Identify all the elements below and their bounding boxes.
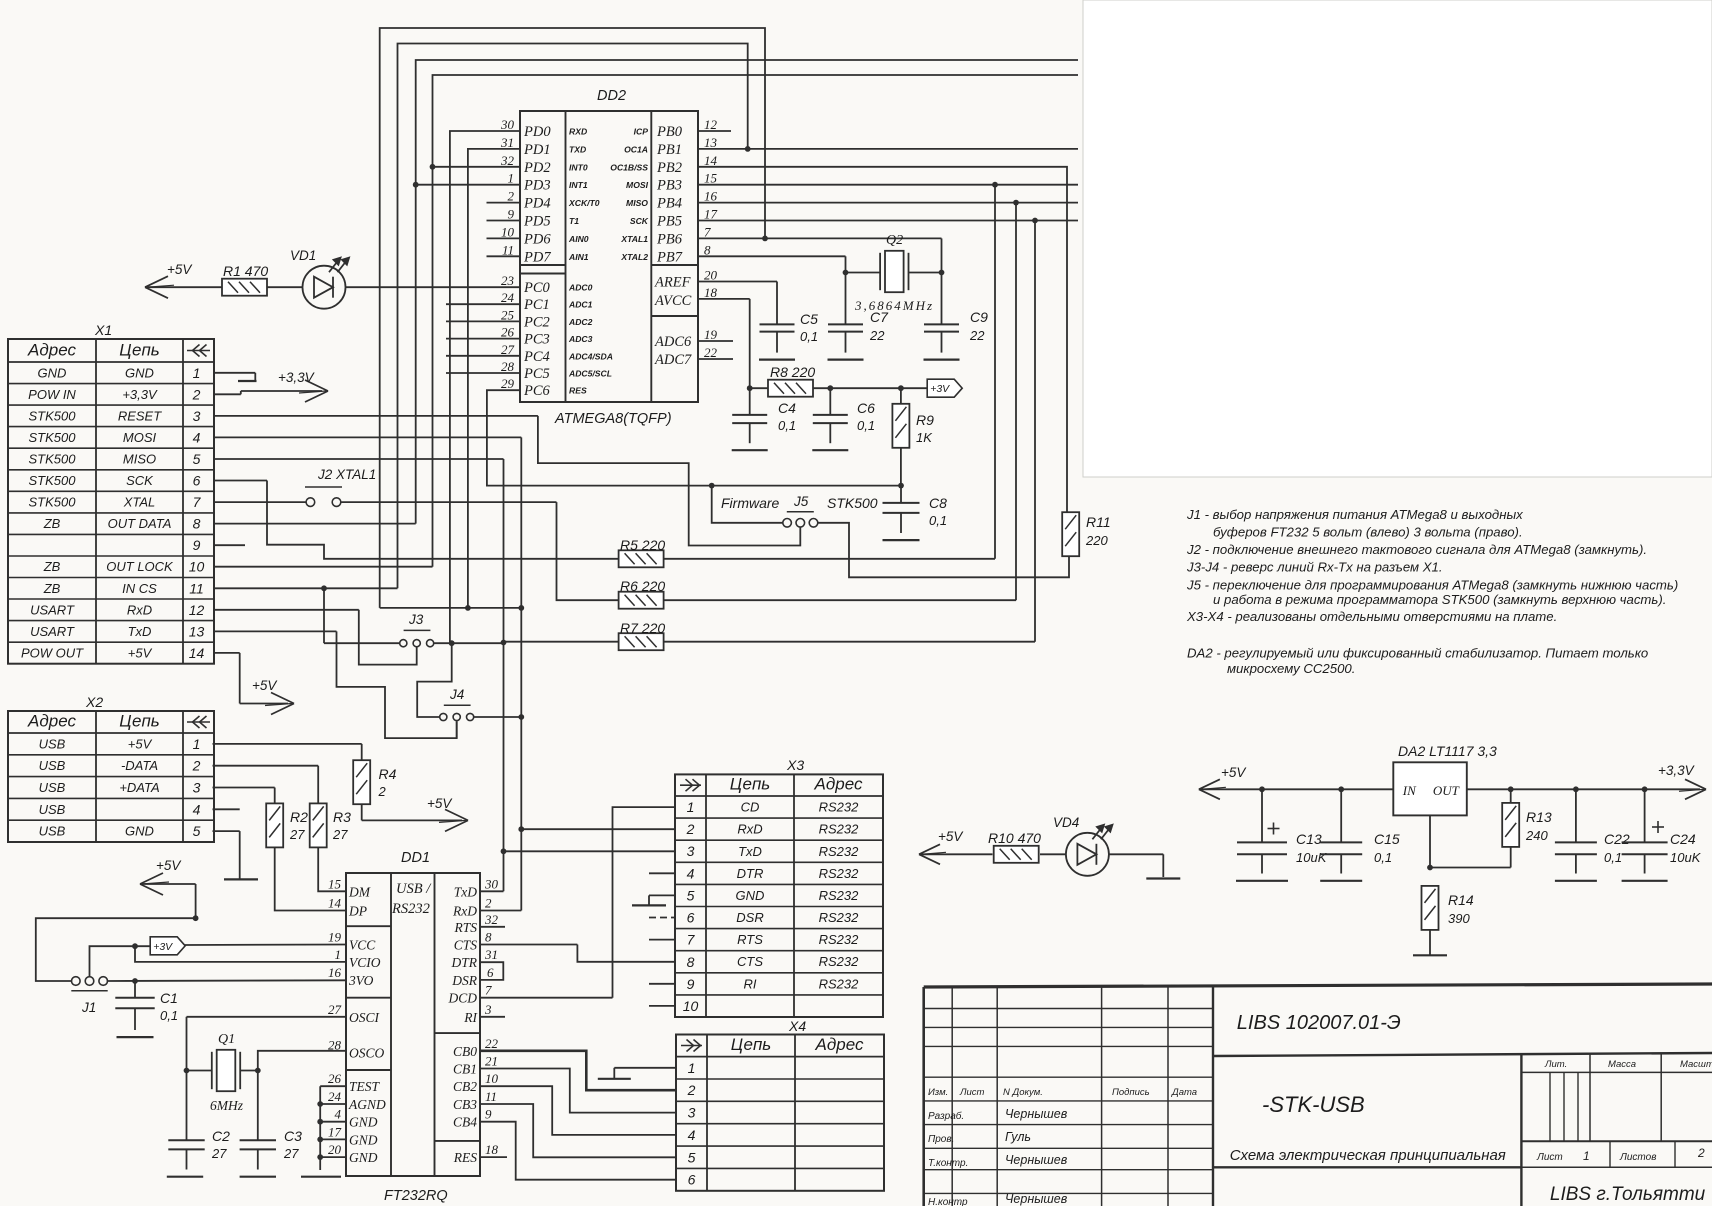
svg-text:R8 220: R8 220 — [770, 364, 815, 380]
svg-text:Q1: Q1 — [218, 1032, 235, 1047]
svg-text:PB2: PB2 — [656, 160, 682, 176]
svg-text:Подпись: Подпись — [1112, 1087, 1150, 1098]
wire +5V arrow into DA2 — [1199, 765, 1393, 799]
svg-text:RTS: RTS — [737, 932, 763, 947]
DD2 pin numbers — [500, 117, 718, 391]
svg-text:13: 13 — [189, 623, 205, 639]
svg-text:VD1: VD1 — [290, 248, 316, 263]
svg-text:2: 2 — [1697, 1146, 1705, 1160]
svg-text:+5V: +5V — [427, 796, 453, 811]
wire PB6 to crystal Q2 right — [939, 238, 945, 324]
svg-text:DP: DP — [348, 904, 367, 919]
svg-text:CB2: CB2 — [453, 1079, 477, 1094]
svg-text:5: 5 — [687, 887, 695, 903]
wire J5 left net from PC6 — [487, 390, 904, 523]
resistor R1 470 — [222, 263, 268, 296]
svg-text:PB0: PB0 — [656, 124, 683, 140]
svg-text:J1 - выбор напряжения питания: J1 - выбор напряжения питания ATMega8 и … — [1186, 507, 1523, 522]
svg-text:2: 2 — [687, 1082, 696, 1098]
svg-text:21: 21 — [485, 1054, 498, 1069]
svg-text:2: 2 — [508, 189, 515, 204]
svg-text:3,6864MHz: 3,6864MHz — [854, 298, 934, 313]
svg-text:ADC5/SCL: ADC5/SCL — [568, 369, 612, 379]
svg-text:Адрес: Адрес — [27, 341, 76, 360]
svg-text:CD: CD — [741, 800, 760, 815]
svg-text:10: 10 — [189, 559, 205, 575]
svg-text:9: 9 — [508, 207, 515, 222]
wire DD1 CB2 to X4 pin4 — [480, 1086, 676, 1135]
svg-text:+3V: +3V — [930, 383, 950, 395]
svg-text:+5V: +5V — [167, 262, 193, 277]
svg-text:2: 2 — [485, 896, 492, 911]
svg-text:RI: RI — [463, 1010, 478, 1025]
svg-text:SCK: SCK — [126, 473, 154, 488]
svg-text:Масшт: Масшт — [1680, 1059, 1712, 1070]
svg-text:OSCI: OSCI — [349, 1010, 381, 1025]
svg-text:12: 12 — [189, 602, 205, 618]
svg-text:AIN0: AIN0 — [568, 234, 589, 244]
svg-text:6MHz: 6MHz — [210, 1098, 244, 1113]
svg-text:USART: USART — [30, 602, 75, 617]
svg-text:RxD: RxD — [737, 822, 762, 837]
svg-text:PC3: PC3 — [523, 332, 550, 348]
svg-text:CB3: CB3 — [453, 1097, 477, 1112]
svg-text:11: 11 — [189, 580, 204, 596]
svg-text:MOSI: MOSI — [123, 430, 157, 445]
wire PD2 / X1 pin10 net (nest 4) — [214, 75, 1078, 567]
svg-text:буферов FT232 5 вольт (влево): буферов FT232 5 вольт (влево) 3 вольта (… — [1213, 525, 1523, 540]
svg-text:X4: X4 — [788, 1018, 806, 1034]
+3V flag near R9 — [927, 379, 962, 397]
wire +5V arrow to R1 — [145, 262, 223, 298]
wire X2 pin3 +DATA to R2 — [213, 788, 275, 804]
wire J3 right lead / J4 left link — [417, 640, 503, 717]
svg-text:PC2: PC2 — [523, 314, 550, 330]
svg-text:ADC4/SDA: ADC4/SDA — [568, 351, 613, 361]
svg-text:DTR: DTR — [737, 866, 764, 881]
svg-text:DSR: DSR — [451, 973, 477, 988]
capacitor C2 — [168, 1071, 230, 1170]
svg-text:R7 220: R7 220 — [620, 620, 665, 636]
wire R8 to +3V — [830, 385, 927, 391]
wire VD4 to ground step — [1109, 854, 1163, 877]
svg-text:RS232: RS232 — [819, 932, 860, 947]
svg-text:R14: R14 — [1448, 892, 1474, 908]
svg-text:GND: GND — [349, 1150, 378, 1165]
svg-text:+3V: +3V — [153, 941, 173, 953]
wire X2 pin4 stub — [213, 808, 240, 810]
capacitor C15 — [1320, 789, 1400, 873]
svg-text:SCK: SCK — [630, 216, 649, 226]
DD2 right stub PB0 — [698, 130, 731, 132]
svg-text:VD4: VD4 — [1053, 815, 1079, 830]
svg-text:CB4: CB4 — [453, 1115, 477, 1130]
wire X4 pin1 GND — [614, 1068, 676, 1079]
svg-text:XTAL1: XTAL1 — [620, 234, 648, 244]
svg-text:PB5: PB5 — [656, 214, 682, 230]
jumper J4 — [440, 687, 474, 721]
svg-text:PD4: PD4 — [523, 196, 551, 212]
svg-text:J3: J3 — [408, 612, 424, 627]
wire X3 pin4 stub — [649, 872, 675, 874]
svg-text:17: 17 — [704, 207, 718, 222]
regulator DA2 LT1117 — [1393, 743, 1497, 815]
svg-text:+3,3V: +3,3V — [122, 387, 158, 402]
svg-text:PD5: PD5 — [523, 214, 551, 230]
svg-text:25: 25 — [501, 307, 515, 322]
svg-text:LIBS г.Тольятти: LIBS г.Тольятти — [1550, 1184, 1706, 1205]
wire PD0 to J3 line — [450, 131, 520, 643]
wire PB6 net (nest outer, XTAL) — [380, 28, 942, 611]
svg-text:15: 15 — [704, 171, 718, 186]
wire R3 to DD1 DM — [318, 847, 346, 891]
svg-text:RS232: RS232 — [819, 954, 860, 969]
svg-text:8: 8 — [687, 954, 695, 970]
svg-text:Гуль: Гуль — [1005, 1130, 1031, 1144]
svg-text:10uK: 10uK — [1296, 850, 1328, 865]
svg-text:AIN1: AIN1 — [568, 252, 589, 262]
svg-text:PB7: PB7 — [656, 249, 683, 265]
svg-text:TEST: TEST — [349, 1079, 381, 1094]
capacitor C7 — [828, 309, 889, 353]
wire J3 left lead to X1 pin11 line — [321, 585, 399, 643]
wire J1 right to DD1 3VO — [107, 978, 346, 984]
svg-text:Дата: Дата — [1171, 1087, 1197, 1098]
svg-text:MISO: MISO — [626, 198, 648, 208]
wire X3 pin7 stub — [649, 939, 675, 941]
svg-text:Чернышев: Чернышев — [1005, 1107, 1068, 1121]
svg-text:GND: GND — [125, 824, 154, 839]
connector X2 — [8, 694, 214, 842]
svg-text:ADC2: ADC2 — [568, 317, 593, 327]
svg-text:19: 19 — [328, 930, 342, 945]
wire R2 to DD1 DP — [275, 847, 346, 910]
svg-text:PC6: PC6 — [523, 383, 551, 399]
svg-text:5: 5 — [193, 823, 201, 839]
svg-text:ZB: ZB — [43, 516, 61, 531]
svg-text:C9: C9 — [970, 309, 988, 325]
wire DD1 RI stub — [480, 1016, 505, 1018]
resistor R2 27 — [266, 803, 308, 847]
svg-text:27: 27 — [332, 827, 348, 842]
capacitor C5 — [760, 311, 819, 353]
wire DD1 CB3 to X4 pin5 — [480, 1104, 676, 1157]
resistor R7 220 — [504, 620, 1036, 650]
svg-text:USB: USB — [39, 802, 66, 817]
wire PB1 net (nest 2) — [214, 44, 1078, 589]
svg-text:C2: C2 — [212, 1128, 230, 1144]
svg-text:26: 26 — [328, 1071, 342, 1086]
svg-text:3: 3 — [193, 408, 201, 424]
svg-text:1: 1 — [193, 736, 201, 752]
svg-text:PC5: PC5 — [523, 366, 550, 382]
svg-text:9: 9 — [193, 537, 201, 553]
jumper J3 — [400, 612, 434, 647]
svg-text:27: 27 — [328, 1002, 342, 1017]
svg-text:10: 10 — [485, 1071, 499, 1086]
svg-text:RS232: RS232 — [819, 844, 860, 859]
svg-text:T1: T1 — [569, 216, 579, 226]
svg-text:AGND: AGND — [348, 1097, 386, 1112]
svg-text:DSR: DSR — [736, 910, 763, 925]
svg-text:PD3: PD3 — [523, 178, 551, 194]
svg-text:ICP: ICP — [634, 127, 649, 137]
svg-text:Цепь: Цепь — [731, 1035, 771, 1054]
wire J4 middle lead — [456, 721, 458, 738]
svg-text:Адрес: Адрес — [814, 775, 863, 794]
DD2 left pin stubs PD4-PD7 — [487, 203, 521, 257]
svg-text:5: 5 — [193, 451, 201, 467]
svg-text:10uK: 10uK — [1670, 850, 1702, 865]
svg-text:MOSI: MOSI — [626, 180, 649, 190]
connector X1 — [8, 322, 214, 664]
svg-text:USB: USB — [39, 736, 66, 751]
svg-text:+3,3V: +3,3V — [1658, 763, 1696, 778]
wire DA2 ADJ to R13 bottom — [1427, 815, 1511, 870]
svg-text:OC1B/SS: OC1B/SS — [610, 162, 648, 172]
svg-text:240: 240 — [1525, 828, 1548, 843]
svg-text:R5 220: R5 220 — [620, 537, 665, 553]
svg-text:C6: C6 — [857, 400, 875, 416]
capacitor C9 — [924, 309, 988, 353]
resistor R8 220 — [750, 364, 833, 397]
svg-text:3VO: 3VO — [348, 973, 374, 988]
svg-text:ADC0: ADC0 — [568, 283, 593, 293]
svg-text:DCD: DCD — [447, 991, 477, 1006]
svg-text:USB: USB — [39, 758, 66, 773]
svg-text:J2 XTAL1: J2 XTAL1 — [317, 467, 376, 482]
svg-text:22: 22 — [969, 328, 985, 343]
wire X2 pin1 to R4 — [213, 744, 362, 761]
wire +3V branch to DD1 VCIO — [135, 946, 346, 962]
DD1 pin numbers — [328, 876, 499, 1157]
resistor R6 220 — [619, 578, 1016, 609]
wire X1 pin12 RxD to J3 middle — [214, 610, 417, 665]
svg-text:RxD: RxD — [127, 602, 152, 617]
svg-text:6: 6 — [487, 965, 494, 980]
svg-text:11: 11 — [485, 1089, 497, 1104]
wire PB3 / R5 vertical — [698, 182, 1078, 559]
capacitor C1 — [115, 981, 178, 1030]
svg-text:Цепь: Цепь — [119, 712, 159, 731]
svg-text:-STK-USB: -STK-USB — [1262, 1092, 1365, 1117]
svg-text:TxD: TxD — [454, 884, 478, 899]
wire X3 pin5 GND — [649, 895, 675, 905]
svg-text:RS232: RS232 — [819, 976, 860, 991]
DD2 left pin stubs PC1-PC5 — [446, 304, 520, 373]
svg-text:N Докум.: N Докум. — [1003, 1087, 1043, 1098]
wire R10 to VD4 — [1040, 853, 1066, 855]
jumper J2 XTAL1 — [305, 467, 376, 506]
svg-text:1: 1 — [1583, 1149, 1590, 1163]
svg-text:ADC7: ADC7 — [654, 352, 692, 368]
svg-text:USART: USART — [30, 624, 75, 639]
wire DD1 TEST/AGND/GND bracket — [317, 1086, 346, 1170]
wire X1 pin5 MISO vertical to DD1 TxD / X3 TxD / R7 / J3 — [214, 459, 506, 891]
svg-text:4: 4 — [193, 429, 201, 445]
DD1 pin name labels — [348, 881, 478, 1165]
svg-text:7: 7 — [704, 224, 711, 239]
wire VD1 to DD2 PC0 — [346, 286, 521, 288]
svg-text:2: 2 — [378, 784, 387, 799]
wire PD1 to RxD-net line — [468, 149, 520, 608]
svg-text:ATMEGA8(TQFP): ATMEGA8(TQFP) — [554, 411, 672, 427]
wire DD1 CB1 to X4 pin3 — [480, 1069, 676, 1113]
svg-text:Т.контр.: Т.контр. — [928, 1158, 968, 1169]
ground at X4 pin1 — [598, 1078, 631, 1080]
connector X3 — [675, 757, 883, 1017]
svg-text:OUT LOCK: OUT LOCK — [106, 559, 174, 574]
svg-text:RES: RES — [453, 1150, 477, 1165]
svg-text:24: 24 — [328, 1089, 342, 1104]
svg-text:19: 19 — [704, 327, 718, 342]
svg-text:+5V: +5V — [128, 645, 153, 660]
wire DD1 CTS to X3 pin8 — [480, 945, 675, 962]
wire X1 pin1 GND symbol — [214, 373, 257, 381]
svg-text:20: 20 — [328, 1142, 342, 1157]
svg-text:18: 18 — [485, 1142, 499, 1157]
svg-text:-DATA: -DATA — [121, 758, 158, 773]
ground under C1 — [117, 1036, 154, 1038]
ground under C3 — [240, 1176, 276, 1178]
svg-text:18: 18 — [704, 285, 718, 300]
svg-text:12: 12 — [704, 117, 718, 132]
jumper J1 — [71, 977, 107, 1015]
svg-text:C3: C3 — [284, 1128, 302, 1144]
ground under C22 — [1555, 880, 1597, 882]
svg-text:+5V: +5V — [1221, 765, 1247, 780]
ground under C13 — [1236, 880, 1288, 882]
wire J1 left net — [36, 918, 196, 981]
svg-text:C1: C1 — [160, 990, 178, 1006]
svg-text:C8: C8 — [929, 495, 947, 511]
wire X2 pin2 -DATA to R3 — [213, 766, 319, 804]
ground under C6 — [812, 449, 848, 451]
wire X1 pin14 +5V arrow — [214, 653, 294, 715]
capacitor C24 10uK polar — [1622, 789, 1702, 873]
svg-text:GND: GND — [349, 1132, 378, 1147]
svg-text:22: 22 — [869, 328, 885, 343]
svg-text:POW IN: POW IN — [28, 387, 76, 402]
svg-text:C22: C22 — [1604, 831, 1630, 847]
wire DD1 DCD to X3 pin1 — [480, 807, 675, 998]
svg-text:RxD: RxD — [452, 904, 477, 919]
wire J5 right to R11 bottom — [818, 523, 1069, 578]
svg-text:C7: C7 — [870, 309, 889, 325]
svg-text:1: 1 — [335, 947, 342, 962]
wire PB5 / R7 vertical — [698, 218, 1078, 642]
svg-text:ADC6: ADC6 — [654, 334, 692, 350]
svg-text:GND: GND — [736, 888, 765, 903]
ground under C9 — [924, 359, 960, 361]
svg-text:R6 220: R6 220 — [620, 578, 665, 594]
svg-text:+5V: +5V — [252, 678, 278, 693]
svg-text:J3-J4 - реверс линий Rx-Tx на: J3-J4 - реверс линий Rx-Tx на разъем X1. — [1186, 560, 1443, 575]
svg-text:GND: GND — [349, 1115, 378, 1130]
svg-text:7: 7 — [687, 932, 696, 948]
svg-text:DA2 LT1117 3,3: DA2 LT1117 3,3 — [1398, 743, 1497, 759]
svg-text:24: 24 — [501, 290, 515, 305]
title block frame — [924, 984, 1712, 1206]
svg-text:J1: J1 — [81, 1000, 96, 1015]
svg-text:11: 11 — [502, 242, 514, 257]
svg-text:J4: J4 — [449, 687, 464, 702]
wire J1 middle to +3V flag and DD1 VCC — [90, 943, 347, 976]
svg-text:PB1: PB1 — [656, 142, 682, 158]
svg-text:17: 17 — [328, 1124, 342, 1139]
wire +5V arrow near DD1 — [140, 858, 199, 921]
svg-text:23: 23 — [501, 273, 515, 288]
svg-text:POW OUT: POW OUT — [21, 645, 84, 660]
svg-text:1: 1 — [687, 799, 695, 815]
svg-text:X2: X2 — [85, 694, 103, 710]
svg-text:PD0: PD0 — [523, 124, 551, 140]
svg-text:CB0: CB0 — [453, 1044, 477, 1059]
wire DD1 DTR-DSR loop — [480, 962, 503, 980]
ground under C5 — [759, 359, 795, 361]
capacitor C3 — [240, 1071, 303, 1170]
svg-text:14: 14 — [189, 645, 205, 661]
ground under DD1 GND bracket — [301, 1176, 341, 1178]
resistor R13 240 — [1502, 789, 1552, 867]
svg-text:Пров.: Пров. — [928, 1134, 954, 1145]
svg-text:USB: USB — [39, 780, 66, 795]
LED VD1 — [290, 248, 350, 309]
wire DD1 RES stub — [480, 1156, 507, 1158]
svg-text:Лит.: Лит. — [1544, 1059, 1567, 1070]
svg-text:+5V: +5V — [938, 829, 964, 844]
svg-text:8: 8 — [485, 930, 492, 945]
svg-text:Масса: Масса — [1608, 1059, 1636, 1070]
wire X1 pin7 XTAL to J2 and R6 — [214, 502, 619, 600]
svg-text:C4: C4 — [778, 400, 796, 416]
IC DD2 ATMEGA8(TQFP) — [520, 88, 698, 427]
LED VD4 — [1053, 815, 1113, 876]
svg-text:1: 1 — [688, 1060, 696, 1076]
svg-text:OC1A: OC1A — [624, 144, 648, 154]
svg-text:9: 9 — [687, 976, 695, 992]
svg-text:PD6: PD6 — [523, 231, 551, 247]
svg-text:30: 30 — [484, 876, 499, 891]
capacitor C8 — [883, 486, 948, 533]
svg-text:Чернышев: Чернышев — [1005, 1192, 1068, 1206]
svg-text:4: 4 — [193, 801, 201, 817]
svg-text:Н.контр: Н.контр — [928, 1197, 968, 1206]
svg-text:1: 1 — [193, 365, 201, 381]
svg-text:6: 6 — [687, 910, 695, 926]
+3V flag near J1 — [150, 937, 185, 955]
svg-text:Адрес: Адрес — [815, 1035, 864, 1054]
svg-text:3: 3 — [193, 780, 201, 796]
wire PB2 to R11 — [698, 167, 1067, 513]
svg-text:Схема электрическая принципиал: Схема электрическая принципиальная — [1230, 1147, 1506, 1164]
svg-text:20: 20 — [704, 268, 718, 283]
wire DD1 OSCI to Q1 — [184, 1017, 346, 1074]
svg-text:Адрес: Адрес — [27, 712, 76, 731]
svg-text:PC4: PC4 — [523, 349, 550, 365]
svg-text:3: 3 — [688, 1105, 696, 1121]
svg-text:0,1: 0,1 — [800, 329, 818, 344]
svg-text:16: 16 — [704, 189, 718, 204]
wire X1 pin9 stub — [214, 544, 245, 546]
svg-text:TxD: TxD — [128, 624, 152, 639]
DD2 pin name labels — [523, 124, 692, 399]
svg-text:C24: C24 — [1670, 831, 1696, 847]
svg-text:ADC1: ADC1 — [568, 300, 593, 310]
svg-text:DD2: DD2 — [597, 88, 626, 104]
svg-text:7: 7 — [485, 983, 492, 998]
svg-text:14: 14 — [328, 896, 342, 911]
